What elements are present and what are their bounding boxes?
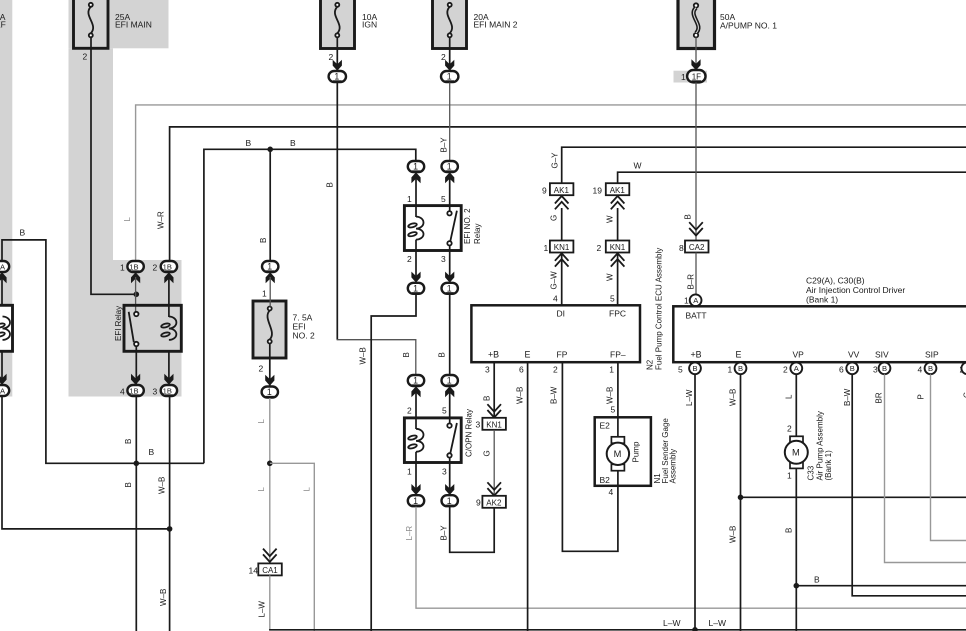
svg-text:B: B: [693, 364, 698, 373]
wire W KN1 to ECU FPC: [617, 253, 619, 305]
relay EFI Relay: [114, 305, 181, 351]
wire oval to 7.5A fuse: [269, 277, 271, 307]
svg-text:+B: +B: [488, 350, 499, 360]
wire L-R from C/OPN pin 1 down and right to edge (gray): [416, 507, 966, 609]
svg-text:B: B: [124, 439, 133, 444]
svg-text:W–B: W–B: [159, 589, 168, 606]
connector oval 1 (EFI NO.2 pin 3 out): [442, 283, 458, 294]
svg-text:2: 2: [597, 243, 602, 253]
chevron up into AK1 (19): [611, 196, 625, 209]
svg-text:4: 4: [120, 387, 125, 397]
connector 1 KN1: [544, 241, 574, 253]
wire G between AK1 and KN1: [561, 208, 563, 240]
svg-text:3: 3: [153, 387, 158, 397]
junction at EFI relay switch feed: [134, 292, 140, 298]
svg-text:1: 1: [684, 296, 689, 306]
svg-text:1B: 1B: [129, 386, 138, 395]
arrow into connector 1F: [691, 59, 700, 70]
svg-text:E2: E2: [600, 420, 611, 430]
svg-text:L–R: L–R: [405, 526, 414, 541]
connector 14 CA1: [249, 563, 282, 575]
wire oval to EFI NO.2 relay coil: [415, 177, 417, 217]
wire 20A fuse to connector: [449, 37, 451, 70]
svg-text:SIP: SIP: [925, 350, 939, 360]
wire L-W from +B circle down to bottom line: [694, 374, 696, 630]
svg-text:1: 1: [267, 262, 272, 272]
svg-text:1: 1: [120, 263, 125, 273]
svg-text:CA1: CA1: [262, 566, 278, 575]
arrow down into oval 3 1B: [164, 374, 173, 385]
svg-text:B: B: [20, 228, 26, 238]
wire B from 50A/1F down chevron into CA2: [689, 222, 703, 235]
connector oval 1 (EFI NO.2 pin 2 out): [408, 283, 424, 294]
svg-text:Assembly: Assembly: [669, 449, 678, 484]
arrow up into oval pin5: [445, 172, 454, 183]
svg-text:(Bank 1): (Bank 1): [824, 450, 833, 481]
wire L from 7.5A branch: oval chain above fuse: [262, 261, 278, 272]
svg-text:14: 14: [249, 565, 259, 575]
connector oval 1 below 20A fuse: [441, 71, 458, 82]
connector oval 1 (C/OPN relay pin 2): [408, 375, 424, 386]
connector 2 KN1: [597, 241, 630, 253]
arrow into connector below 20A fuse: [445, 60, 454, 71]
wire B from EFI NO.2 pin 3 to C/OPN pin 5: [449, 294, 451, 375]
svg-text:FP–: FP–: [610, 350, 626, 360]
svg-text:L–W: L–W: [685, 389, 694, 406]
fuse 20A EFI MAIN 2: [433, 0, 518, 49]
svg-text:B: B: [814, 575, 820, 585]
chevron up into AK1: [555, 196, 569, 209]
wire B from left relay connector up over to EFI relay pin 4 net: [2, 240, 204, 463]
svg-text:KN1: KN1: [486, 421, 502, 430]
wire B from junction down to 7.5A fuse connector: [269, 149, 271, 261]
svg-text:4: 4: [553, 294, 558, 304]
wire L from oval down to CA1: [269, 398, 271, 563]
junction block shading top block behind 25A fuse and label: [69, 0, 169, 48]
wire B from EFI relay pin 4 oval down to bottom: [135, 397, 137, 631]
svg-text:B: B: [290, 138, 296, 148]
svg-text:G–W: G–W: [550, 271, 559, 290]
arrow down into lower oval pin 3: [445, 272, 454, 283]
svg-text:B–W: B–W: [550, 386, 559, 404]
svg-text:AK2: AK2: [486, 499, 502, 508]
svg-text:P: P: [917, 394, 926, 399]
svg-text:EFI MAIN 2: EFI MAIN 2: [474, 20, 518, 30]
wire C/OPN pin2 oval to relay: [415, 391, 417, 429]
header label C29(A), C30(B) Air Injection Control Driver (Bank 1): [806, 276, 905, 305]
svg-text:2: 2: [553, 365, 558, 375]
wire W-B from E circle down to bottom: [740, 374, 742, 631]
svg-text:2: 2: [153, 263, 158, 273]
svg-text:B: B: [850, 364, 855, 373]
wire EFI NO.2 relay pin 2 down: [415, 240, 417, 281]
svg-text:19: 19: [593, 186, 603, 196]
connector oval 1F: [687, 70, 705, 82]
wire EFI relay pin3 down: [168, 351, 170, 386]
svg-text:Fuel Pump Control ECU Assembly: Fuel Pump Control ECU Assembly: [655, 248, 664, 370]
svg-text:2: 2: [407, 406, 412, 416]
connector oval 4 1B: [120, 385, 144, 397]
arrow down into oval 4 1B: [131, 374, 140, 385]
svg-text:(Bank 1): (Bank 1): [806, 295, 838, 305]
svg-text:CA2: CA2: [689, 243, 705, 252]
chevron down into CA1: [263, 549, 277, 562]
svg-text:6: 6: [519, 365, 524, 375]
svg-text:L–W: L–W: [709, 618, 726, 628]
chevron up into KN1: [555, 253, 569, 266]
svg-text:9: 9: [476, 497, 481, 507]
air injection control driver box: [673, 306, 966, 362]
svg-text:B–W: B–W: [843, 388, 852, 406]
svg-text:B: B: [246, 138, 252, 148]
svg-text:5: 5: [610, 294, 615, 304]
svg-text:B: B: [402, 352, 411, 357]
arrow up into C/OPN pin5 oval: [445, 386, 454, 397]
svg-text:SIV: SIV: [875, 350, 889, 360]
air pump motor C33: [785, 436, 808, 468]
svg-text:L–W: L–W: [663, 618, 680, 628]
svg-text:L: L: [123, 217, 132, 222]
svg-text:1B: 1B: [163, 262, 172, 271]
svg-text:AK1: AK1: [554, 186, 570, 195]
junction of EFI relay pin 4 wire with B net: [134, 461, 140, 467]
connector oval 1 (C/OPN pin 3 out): [442, 495, 458, 506]
shading strip behind connector 1F: [674, 71, 708, 83]
connector oval 3 1B: [153, 385, 178, 397]
wire C/OPN pin5 oval to relay: [449, 391, 451, 424]
svg-text:1: 1: [413, 162, 418, 172]
svg-text:B: B: [483, 396, 492, 401]
arrow up into oval above 7.5A fuse: [266, 272, 275, 283]
fuel pump assembly box N1: [595, 417, 651, 486]
svg-text:BATT: BATT: [686, 310, 707, 320]
arrow up into C/OPN pin2 oval: [411, 386, 420, 397]
connector oval 1 (EFI NO.2 relay pin 1): [408, 161, 424, 172]
wire B from ECU +B down to KN1: [493, 362, 495, 418]
svg-text:2: 2: [407, 254, 412, 264]
svg-text:1: 1: [407, 194, 412, 204]
wire L-W from CA1 down to bottom L-W line: [269, 575, 271, 629]
chevron down into KN1 (3): [487, 404, 501, 417]
svg-text:1: 1: [413, 496, 418, 506]
svg-text:W–B: W–B: [158, 477, 167, 494]
svg-text:EFI MAIN: EFI MAIN: [115, 20, 152, 30]
wire W-B from EFI NO.2 pin 2 down-left to bottom: [371, 294, 416, 631]
svg-text:1: 1: [267, 387, 272, 397]
svg-text:W: W: [606, 273, 615, 281]
svg-text:5: 5: [678, 364, 683, 374]
svg-text:L: L: [303, 487, 312, 492]
svg-text:W–B: W–B: [516, 387, 525, 404]
connector circle A: [690, 294, 702, 306]
connector oval 1 below 10A fuse: [329, 71, 346, 82]
svg-text:FPC: FPC: [609, 308, 626, 318]
wire L branch right and down (gray): [270, 463, 315, 631]
junction on W-B wire: [167, 526, 173, 532]
svg-text:B: B: [738, 364, 743, 373]
svg-text:L: L: [785, 394, 794, 399]
svg-text:W: W: [606, 215, 615, 223]
junction block shading block around EFI relay: [69, 260, 182, 397]
svg-text:1: 1: [447, 162, 452, 172]
svg-text:4: 4: [609, 487, 614, 497]
svg-text:3: 3: [873, 364, 878, 374]
svg-text:G: G: [483, 450, 492, 456]
connector oval 1 (C/OPN relay pin 5): [442, 375, 458, 386]
svg-text:1: 1: [787, 471, 792, 481]
wire EFI relay switch bottom stub: [135, 346, 137, 352]
svg-text:2: 2: [783, 364, 788, 374]
svg-text:9: 9: [542, 186, 547, 196]
svg-text:5: 5: [441, 194, 446, 204]
wire C/OPN pin 3 down: [449, 458, 451, 494]
svg-text:VV: VV: [848, 350, 860, 360]
svg-text:FP: FP: [557, 350, 568, 360]
svg-text:B: B: [928, 364, 933, 373]
wire W-B from EFI relay pin 3 oval down to bottom: [169, 397, 171, 631]
svg-text:E: E: [525, 350, 531, 360]
wire 7.5A fuse to lower oval: [269, 344, 271, 386]
fuse (partial, left edge): [0, 12, 6, 30]
arrow into connector below 10A fuse: [333, 60, 342, 71]
arrow up into oval pin1: [411, 172, 420, 183]
wire EFI relay pin4 down: [135, 351, 137, 386]
wire from 10A IGN connector down (black part): [336, 83, 338, 340]
connector oval 1 (EFI NO.2 relay pin 5): [442, 161, 458, 172]
wire oval to EFI NO.2 relay switch: [449, 177, 451, 211]
relay C/OPN Relay: [404, 409, 473, 463]
svg-text:1: 1: [544, 243, 549, 253]
svg-text:L–W: L–W: [258, 601, 267, 618]
wire W-R from EFI relay pin 2 up and right to edge: [170, 127, 966, 262]
svg-text:DI: DI: [557, 308, 566, 318]
svg-text:1: 1: [413, 284, 418, 294]
wire B-W from ECU FP down around to pump B2: [562, 362, 618, 551]
svg-text:B: B: [124, 482, 133, 487]
svg-text:W–B: W–B: [606, 387, 615, 404]
svg-text:3: 3: [441, 254, 446, 264]
fuse 7.5A EFI NO. 2: [253, 301, 315, 358]
svg-text:1: 1: [334, 72, 339, 82]
fuse 10A IGN: [321, 0, 378, 49]
wire EFI NO.2 relay pin 3 down: [449, 246, 451, 282]
svg-text:3: 3: [476, 420, 481, 430]
wire from 25A fuse down to EFI relay switch: [91, 37, 136, 294]
svg-text:1F: 1F: [692, 72, 701, 81]
svg-text:2: 2: [259, 364, 264, 374]
svg-text:5: 5: [442, 406, 447, 416]
svg-text:KN1: KN1: [554, 243, 570, 252]
chevron down into AK2: [487, 482, 501, 495]
connector oval 1 1B (EFI relay pin 1): [120, 261, 144, 273]
svg-text:1: 1: [728, 364, 733, 374]
wire G-Y from AK1 up and right to edge: [562, 147, 966, 183]
svg-text:B–Y: B–Y: [440, 137, 449, 153]
svg-text:N2: N2: [646, 359, 655, 370]
wire from 10A IGN to C/OPN relay pin 2 (gray part): [337, 339, 416, 376]
svg-text:AK1: AK1: [610, 186, 626, 195]
relay (partial, left edge): [0, 261, 13, 396]
connector 19 AK1: [593, 183, 630, 195]
svg-text:1: 1: [262, 289, 267, 299]
wire C/OPN pin 1 down: [415, 452, 417, 494]
svg-text:M: M: [792, 448, 800, 458]
wire W-B branch right to edge: [741, 496, 966, 498]
wire P from SIP circle down and right to edge (gray): [931, 374, 966, 540]
connector 8 CA2: [679, 241, 709, 253]
connector oval 2 1B (EFI relay pin 2): [153, 261, 178, 273]
svg-text:W–B: W–B: [729, 526, 738, 543]
wire oval 2 1B to EFI relay coil: [168, 277, 170, 317]
svg-text:M: M: [614, 449, 622, 459]
svg-text:EFI NO. 2: EFI NO. 2: [463, 208, 472, 244]
wire from connector 1F down to CA2: [695, 83, 697, 241]
connector 9 AK1: [542, 183, 573, 195]
wire L from EFI relay pin 1 up and right to edge (gray): [136, 105, 966, 262]
fuse 50A A/PUMP NO. 1: [678, 0, 777, 49]
junction block shading left edge strip: [0, 0, 12, 397]
wire B-Y from 20A fuse connector down to EFI NO.2 relay pin 5 (gray): [449, 83, 451, 161]
junction on W-B wire: [738, 495, 744, 501]
svg-text:VP: VP: [793, 350, 805, 360]
junction of L-W wire with bottom L-W line: [692, 627, 698, 631]
svg-text:BR: BR: [875, 392, 884, 403]
arrow up into oval 1 1B: [131, 272, 140, 283]
svg-text:IGN: IGN: [362, 20, 377, 30]
svg-text:A/PUMP NO. 1: A/PUMP NO. 1: [720, 20, 777, 30]
svg-text:L: L: [257, 487, 266, 492]
svg-text:B–Y: B–Y: [440, 525, 449, 541]
svg-text:1: 1: [681, 72, 686, 82]
svg-text:B: B: [684, 214, 693, 219]
svg-text:E: E: [736, 350, 742, 360]
svg-text:B: B: [326, 182, 335, 187]
svg-text:C/OPN Relay: C/OPN Relay: [465, 409, 474, 457]
wire B horizontal feeding EFI NO.2 relay pin 1: [204, 149, 416, 463]
junction on B wire: [794, 583, 800, 589]
svg-text:2: 2: [787, 424, 792, 434]
ECU Fuel Pump Control ECU Assembly box N2: [471, 305, 640, 362]
svg-text:C29(A), C30(B): C29(A), C30(B): [806, 276, 865, 286]
svg-text:1: 1: [447, 72, 452, 82]
svg-text:1B: 1B: [129, 262, 138, 271]
svg-text:3: 3: [485, 365, 490, 375]
svg-text:1B: 1B: [163, 386, 172, 395]
svg-text:G: G: [550, 215, 559, 221]
wire G-W KN1 to ECU DI: [561, 253, 563, 305]
junction block shading vertical strip below 25A fuse: [69, 48, 114, 260]
svg-text:W–B: W–B: [359, 347, 368, 364]
wire B from air pump motor down to bottom: [795, 468, 797, 631]
svg-text:KN1: KN1: [610, 243, 626, 252]
svg-text:B: B: [149, 447, 155, 457]
svg-text:1: 1: [413, 376, 418, 386]
arrow down into lower oval pin 2: [411, 272, 420, 283]
svg-text:3: 3: [442, 467, 447, 477]
junction on L wire for branch: [267, 461, 273, 467]
wire L from VP circle down to air pump motor: [795, 374, 797, 440]
wire oval 1 1B to EFI relay: [135, 277, 137, 312]
arrow down into lower oval pin 1: [411, 484, 420, 495]
svg-text:B: B: [259, 238, 268, 243]
svg-text:5: 5: [611, 405, 616, 415]
svg-text:B: B: [882, 364, 887, 373]
svg-text:B: B: [785, 528, 794, 533]
wire W-B from ECU E down to bottom: [527, 362, 529, 631]
wire 50A fuse to connector 1F: [695, 37, 697, 70]
svg-text:EFI Relay: EFI Relay: [114, 306, 123, 341]
svg-text:1: 1: [447, 284, 452, 294]
wire B-R from CA2 down to circle A: [695, 253, 697, 295]
svg-text:8: 8: [679, 243, 684, 253]
wire W from AK1 up and right to edge: [618, 172, 966, 183]
svg-text:L: L: [257, 419, 266, 424]
svg-text:6: 6: [839, 364, 844, 374]
connector 3 KN1: [476, 418, 506, 430]
svg-text:NO. 2: NO. 2: [293, 331, 315, 341]
svg-text:B2: B2: [600, 475, 611, 485]
svg-text:1: 1: [609, 365, 614, 375]
arrow down into oval below 7.5A fuse: [265, 375, 274, 386]
svg-text:1: 1: [447, 376, 452, 386]
wire B branch right to edge: [796, 585, 966, 587]
wire BR from SIV circle down and right to edge (gray): [885, 374, 966, 562]
wire B-W from VV circle down and right to edge: [852, 374, 966, 596]
svg-text:C33: C33: [807, 465, 816, 480]
svg-text:2: 2: [83, 52, 88, 62]
svg-text:EF: EF: [0, 20, 6, 30]
junction on wire B at 7.5A fuse branch: [267, 147, 273, 153]
svg-text:W–B: W–B: [729, 389, 738, 406]
connector 9 AK2: [476, 496, 506, 508]
svg-text:1: 1: [447, 496, 452, 506]
svg-text:Air Injection Control Driver: Air Injection Control Driver: [806, 285, 905, 295]
wire W-B from ECU FP- down to pump E2: [617, 362, 619, 417]
wire G between KN1 and AK2: [493, 430, 495, 496]
svg-text:B: B: [438, 352, 447, 357]
svg-text:1: 1: [407, 467, 412, 477]
chevron up into KN1 (2): [611, 253, 625, 266]
svg-text:Pump: Pump: [632, 441, 641, 462]
svg-text:+B: +B: [691, 350, 702, 360]
svg-text:G–Y: G–Y: [551, 152, 560, 169]
wire from left relay lower connector to W-B net: [2, 397, 170, 529]
svg-text:W–R: W–R: [157, 211, 166, 229]
svg-text:B–R: B–R: [687, 274, 696, 290]
wire 10A fuse to connector: [336, 37, 338, 70]
wire B-Y from C/OPN pin 3 to AK2: [450, 507, 495, 553]
svg-text:4: 4: [918, 364, 923, 374]
svg-text:W: W: [634, 161, 642, 171]
svg-text:G: G: [963, 392, 966, 398]
wire W between AK1 and KN1: [617, 208, 619, 240]
fuse 25A EFI MAIN: [74, 0, 152, 48]
connector oval 1 below 7.5A fuse: [262, 387, 278, 398]
connector oval 1 (C/OPN pin 1 out): [408, 495, 424, 506]
arrow up into oval 2 1B: [164, 272, 173, 283]
arrow down into lower oval pin 3: [445, 484, 454, 495]
svg-text:Relay: Relay: [473, 224, 482, 244]
relay EFI NO. 2 Relay: [404, 206, 482, 251]
